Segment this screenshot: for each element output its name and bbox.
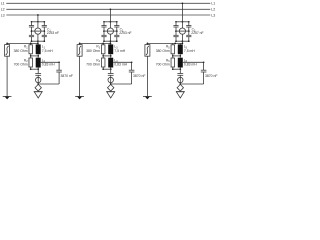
svg-text:2253 nF: 2253 nF — [119, 31, 131, 35]
svg-text:L1: L1 — [211, 2, 215, 6]
svg-text:3870 nF: 3870 nF — [61, 74, 73, 78]
svg-text:7,5 mH: 7,5 mH — [114, 49, 125, 53]
svg-text:380 Ohm: 380 Ohm — [14, 49, 28, 53]
svg-text:700 Ohm: 700 Ohm — [156, 63, 170, 67]
svg-text:0,83 mH: 0,83 mH — [184, 63, 197, 67]
svg-text:L3: L3 — [1, 13, 5, 17]
svg-text:7,5 mH: 7,5 mH — [42, 49, 53, 53]
svg-text:2253 nF: 2253 nF — [47, 31, 59, 35]
svg-text:700 Ohm: 700 Ohm — [14, 63, 28, 67]
svg-text:3870 nF: 3870 nF — [133, 74, 145, 78]
svg-text:L3: L3 — [211, 13, 215, 17]
svg-text:L2: L2 — [211, 8, 215, 12]
svg-text:2257 nF: 2257 nF — [191, 31, 203, 35]
svg-text:3870 nF: 3870 nF — [205, 74, 217, 78]
svg-text:7,5 mH: 7,5 mH — [184, 49, 195, 53]
svg-text:380 Ohm: 380 Ohm — [86, 49, 100, 53]
svg-text:700 Ohm: 700 Ohm — [86, 63, 100, 67]
svg-text:380 Ohm: 380 Ohm — [156, 49, 170, 53]
svg-text:0,83 mH: 0,83 mH — [42, 63, 55, 67]
svg-text:0,83 mH: 0,83 mH — [114, 63, 127, 67]
svg-text:L2: L2 — [1, 8, 5, 12]
svg-text:L1: L1 — [1, 2, 5, 6]
